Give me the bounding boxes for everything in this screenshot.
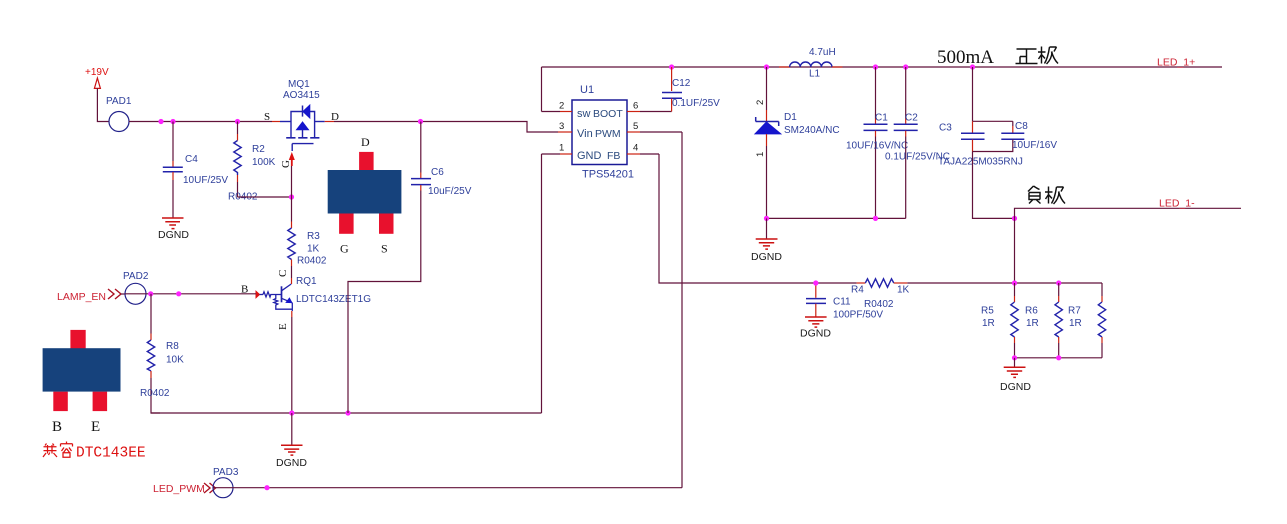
package drawing SOT-23 body (MQ1) bbox=[328, 152, 402, 234]
ground DGND (C11) bbox=[800, 317, 831, 340]
svg-text:D: D bbox=[361, 135, 370, 149]
resistor R4 bbox=[851, 279, 1015, 310]
capacitor C6 bbox=[348, 122, 472, 414]
svg-text:BOOT: BOOT bbox=[593, 108, 623, 120]
pin 4 bbox=[627, 143, 659, 155]
wire sense riser bbox=[1014, 218, 1016, 283]
svg-text:10UF/16V/NC: 10UF/16V/NC bbox=[846, 141, 908, 152]
wire BOOT riser bbox=[541, 67, 543, 112]
wire top rail bbox=[542, 66, 1223, 68]
label 正极 bbox=[1016, 47, 1059, 65]
svg-text:TPS54201: TPS54201 bbox=[582, 169, 634, 181]
node dot emitter rail bbox=[289, 410, 294, 415]
svg-text:R0402: R0402 bbox=[140, 388, 170, 399]
svg-text:R5: R5 bbox=[981, 306, 994, 317]
svg-text:LAMP_EN: LAMP_EN bbox=[57, 291, 106, 303]
svg-text:sw: sw bbox=[577, 108, 591, 120]
svg-text:1R: 1R bbox=[982, 318, 995, 329]
node dot D1 bbox=[764, 64, 769, 69]
svg-text:+19V: +19V bbox=[85, 67, 109, 78]
svg-text:DGND: DGND bbox=[158, 229, 189, 241]
svg-text:LED_1+: LED_1+ bbox=[1157, 57, 1195, 69]
svg-text:4.7uH: 4.7uH bbox=[809, 47, 836, 58]
svg-text:PAD1: PAD1 bbox=[106, 96, 132, 107]
node dot C6 return rail bbox=[345, 410, 350, 415]
svg-text:GND: GND bbox=[577, 150, 602, 162]
node dot minus bbox=[1012, 216, 1017, 221]
svg-text:R8: R8 bbox=[166, 341, 179, 352]
svg-text:10K: 10K bbox=[166, 355, 184, 366]
resistor R6 bbox=[1025, 283, 1062, 358]
svg-text:D1: D1 bbox=[784, 112, 797, 123]
wire GND riser bbox=[541, 154, 543, 413]
pad PAD3 bbox=[213, 467, 239, 498]
wire PAD1 to MQ1 source bbox=[129, 121, 272, 123]
node dot R5 bbox=[1012, 280, 1017, 285]
inductor L1 bbox=[779, 47, 843, 80]
node dot R2 branch bbox=[235, 119, 240, 124]
svg-text:10UF/16V: 10UF/16V bbox=[1012, 140, 1057, 151]
node dot PWM line bbox=[264, 485, 269, 490]
wire R2 bottom to gate node bbox=[238, 196, 292, 198]
node dot C12 bbox=[669, 64, 674, 69]
svg-text:Vin: Vin bbox=[577, 128, 593, 140]
svg-text:G: G bbox=[340, 242, 349, 256]
node dot gate bbox=[289, 194, 294, 199]
note 兼容DTC143EE bbox=[43, 442, 146, 462]
resistor R2 bbox=[228, 122, 276, 203]
svg-text:10UF/25V: 10UF/25V bbox=[183, 175, 228, 186]
svg-text:R6: R6 bbox=[1025, 306, 1038, 317]
svg-text:DGND: DGND bbox=[800, 328, 831, 340]
svg-text:6: 6 bbox=[633, 101, 638, 112]
svg-text:PWM: PWM bbox=[595, 128, 621, 140]
svg-text:U1: U1 bbox=[580, 84, 594, 96]
svg-text:R0402: R0402 bbox=[297, 256, 327, 267]
ground DGND (RQ1) bbox=[276, 413, 307, 469]
capacitor C3 with C8 branch bbox=[938, 67, 1023, 168]
svg-text:S: S bbox=[264, 111, 270, 123]
svg-text:AO3415: AO3415 bbox=[283, 90, 320, 101]
svg-text:MQ1: MQ1 bbox=[288, 79, 310, 90]
svg-text:100K: 100K bbox=[252, 157, 276, 168]
ground DGND (C4) bbox=[158, 218, 189, 241]
svg-text:B: B bbox=[52, 419, 62, 435]
svg-text:C: C bbox=[277, 270, 289, 277]
net LAMP_EN bbox=[57, 289, 125, 303]
pad PAD2 bbox=[123, 271, 149, 304]
node dot R6 bbox=[1056, 280, 1061, 285]
svg-text:LED_PWM: LED_PWM bbox=[153, 483, 205, 495]
pin 2 bbox=[542, 101, 573, 112]
node dot R6 gnd bbox=[1056, 355, 1061, 360]
svg-text:100PF/50V: 100PF/50V bbox=[833, 310, 883, 321]
resistor R3 bbox=[288, 197, 327, 278]
wire bottom rail bbox=[151, 412, 542, 414]
svg-text:DGND: DGND bbox=[1000, 381, 1031, 393]
wire LED_PWM to PWM riser bbox=[233, 487, 682, 489]
svg-text:E: E bbox=[277, 323, 289, 330]
svg-text:C8: C8 bbox=[1015, 121, 1028, 132]
svg-text:R2: R2 bbox=[252, 144, 265, 155]
ground DGND (R5) bbox=[1000, 358, 1031, 393]
svg-text:10uF/25V: 10uF/25V bbox=[428, 186, 472, 197]
node dot C11 bbox=[813, 280, 818, 285]
svg-text:G: G bbox=[280, 160, 292, 168]
resistor R5 bbox=[981, 283, 1018, 358]
capacitor C2 bbox=[885, 67, 950, 218]
svg-text:R7: R7 bbox=[1068, 306, 1081, 317]
capacitor C8 bbox=[973, 121, 1058, 152]
wire D1 bottom rail bbox=[767, 217, 906, 219]
op-amp U1 TPS54201 box bbox=[572, 84, 634, 181]
svg-text:PAD2: PAD2 bbox=[123, 271, 149, 282]
resistor R8 bbox=[140, 294, 184, 413]
node dot C2 bbox=[903, 64, 908, 69]
svg-text:1: 1 bbox=[559, 143, 564, 154]
svg-text:C11: C11 bbox=[833, 297, 851, 308]
svg-text:C2: C2 bbox=[905, 113, 918, 124]
wire C3 to LED_1- corner bbox=[973, 152, 1015, 219]
wire RQ1 emitter down bbox=[291, 311, 293, 413]
svg-text:1: 1 bbox=[755, 152, 766, 157]
svg-text:C1: C1 bbox=[875, 113, 888, 124]
diode D1 bbox=[755, 67, 840, 218]
svg-text:5: 5 bbox=[633, 121, 638, 132]
svg-text:RQ1: RQ1 bbox=[296, 276, 317, 287]
svg-text:S: S bbox=[381, 242, 388, 256]
svg-text:2: 2 bbox=[755, 100, 766, 105]
svg-text:3: 3 bbox=[559, 121, 564, 132]
capacitor C12 bbox=[662, 67, 720, 112]
package drawing SOT-23 body (RQ1 compatible) bbox=[43, 330, 121, 411]
wire R5 rail bbox=[1015, 282, 1103, 284]
svg-text:R3: R3 bbox=[307, 231, 320, 242]
node dot R5 gnd bbox=[1012, 355, 1017, 360]
node dot D1 gnd bbox=[764, 216, 769, 221]
wire gate arrow to node bbox=[291, 166, 293, 197]
wire PWM riser bbox=[681, 132, 683, 488]
pad PAD1 bbox=[106, 96, 132, 132]
ground DGND (D1) bbox=[751, 218, 782, 263]
pin 3 bbox=[558, 121, 572, 132]
wire LED_1- rail bbox=[1015, 208, 1242, 218]
svg-text:4: 4 bbox=[633, 143, 638, 154]
wire R5 bottom rail bbox=[1015, 357, 1103, 359]
transistor RQ1 bbox=[241, 270, 371, 330]
svg-text:1K: 1K bbox=[897, 285, 910, 296]
wire MQ1 drain to Vin bbox=[334, 122, 558, 133]
pin 1 bbox=[542, 143, 573, 155]
wire PAD2 to RQ1 base bbox=[146, 293, 256, 295]
svg-text:C3: C3 bbox=[939, 123, 952, 134]
node dot C6 branch bbox=[418, 119, 423, 124]
svg-text:DGND: DGND bbox=[276, 457, 307, 469]
svg-text:LDTC143ZET1G: LDTC143ZET1G bbox=[296, 294, 371, 305]
wire RQ1 collector bbox=[291, 278, 293, 284]
red gate arrow bbox=[289, 152, 295, 166]
svg-text:LED_1-: LED_1- bbox=[1159, 198, 1195, 210]
svg-text:FB: FB bbox=[607, 150, 620, 162]
node dot C4 branch bbox=[170, 119, 175, 124]
node dot C3 bbox=[970, 64, 975, 69]
wire +19V to PAD1 bbox=[97, 88, 109, 121]
svg-text:PAD3: PAD3 bbox=[213, 467, 239, 478]
node dot a bbox=[158, 119, 163, 124]
net LED_PWM bbox=[153, 483, 216, 495]
pin 5 bbox=[627, 121, 682, 132]
svg-text:R0402: R0402 bbox=[864, 299, 894, 310]
svg-text:C6: C6 bbox=[431, 167, 444, 178]
wire FB riser bbox=[659, 154, 857, 283]
svg-text:1K: 1K bbox=[307, 244, 320, 255]
svg-text:TAJA225M035RNJ: TAJA225M035RNJ bbox=[938, 157, 1023, 168]
node dot C1 gnd bbox=[873, 216, 878, 221]
svg-text:SM240A/NC: SM240A/NC bbox=[784, 125, 840, 136]
svg-text:DGND: DGND bbox=[751, 251, 782, 263]
node dot C1 bbox=[873, 64, 878, 69]
capacitor C1 bbox=[846, 67, 908, 218]
resistor R7 bbox=[1068, 283, 1106, 358]
node dot b bbox=[176, 291, 181, 296]
mosfet MQ1 labels bbox=[264, 79, 339, 168]
svg-text:1R: 1R bbox=[1026, 318, 1039, 329]
capacitor C4 bbox=[163, 122, 229, 218]
svg-text:E: E bbox=[91, 419, 100, 435]
capacitor C11 bbox=[806, 283, 883, 321]
pin 6 bbox=[627, 101, 672, 112]
mosfet MQ1 symbol bbox=[272, 105, 334, 151]
svg-text:R4: R4 bbox=[851, 285, 864, 296]
svg-text:0.1UF/25V: 0.1UF/25V bbox=[672, 98, 720, 109]
svg-text:2: 2 bbox=[559, 101, 564, 112]
svg-text:L1: L1 bbox=[809, 69, 821, 80]
power +19V bbox=[85, 67, 109, 88]
node dot R8 branch bbox=[148, 291, 153, 296]
svg-text:DTC143EE: DTC143EE bbox=[76, 446, 146, 462]
svg-text:1R: 1R bbox=[1069, 318, 1082, 329]
svg-text:500mA: 500mA bbox=[937, 47, 994, 68]
svg-text:C12: C12 bbox=[672, 78, 691, 89]
label 负极 bbox=[1028, 186, 1065, 204]
svg-text:C4: C4 bbox=[185, 154, 198, 165]
